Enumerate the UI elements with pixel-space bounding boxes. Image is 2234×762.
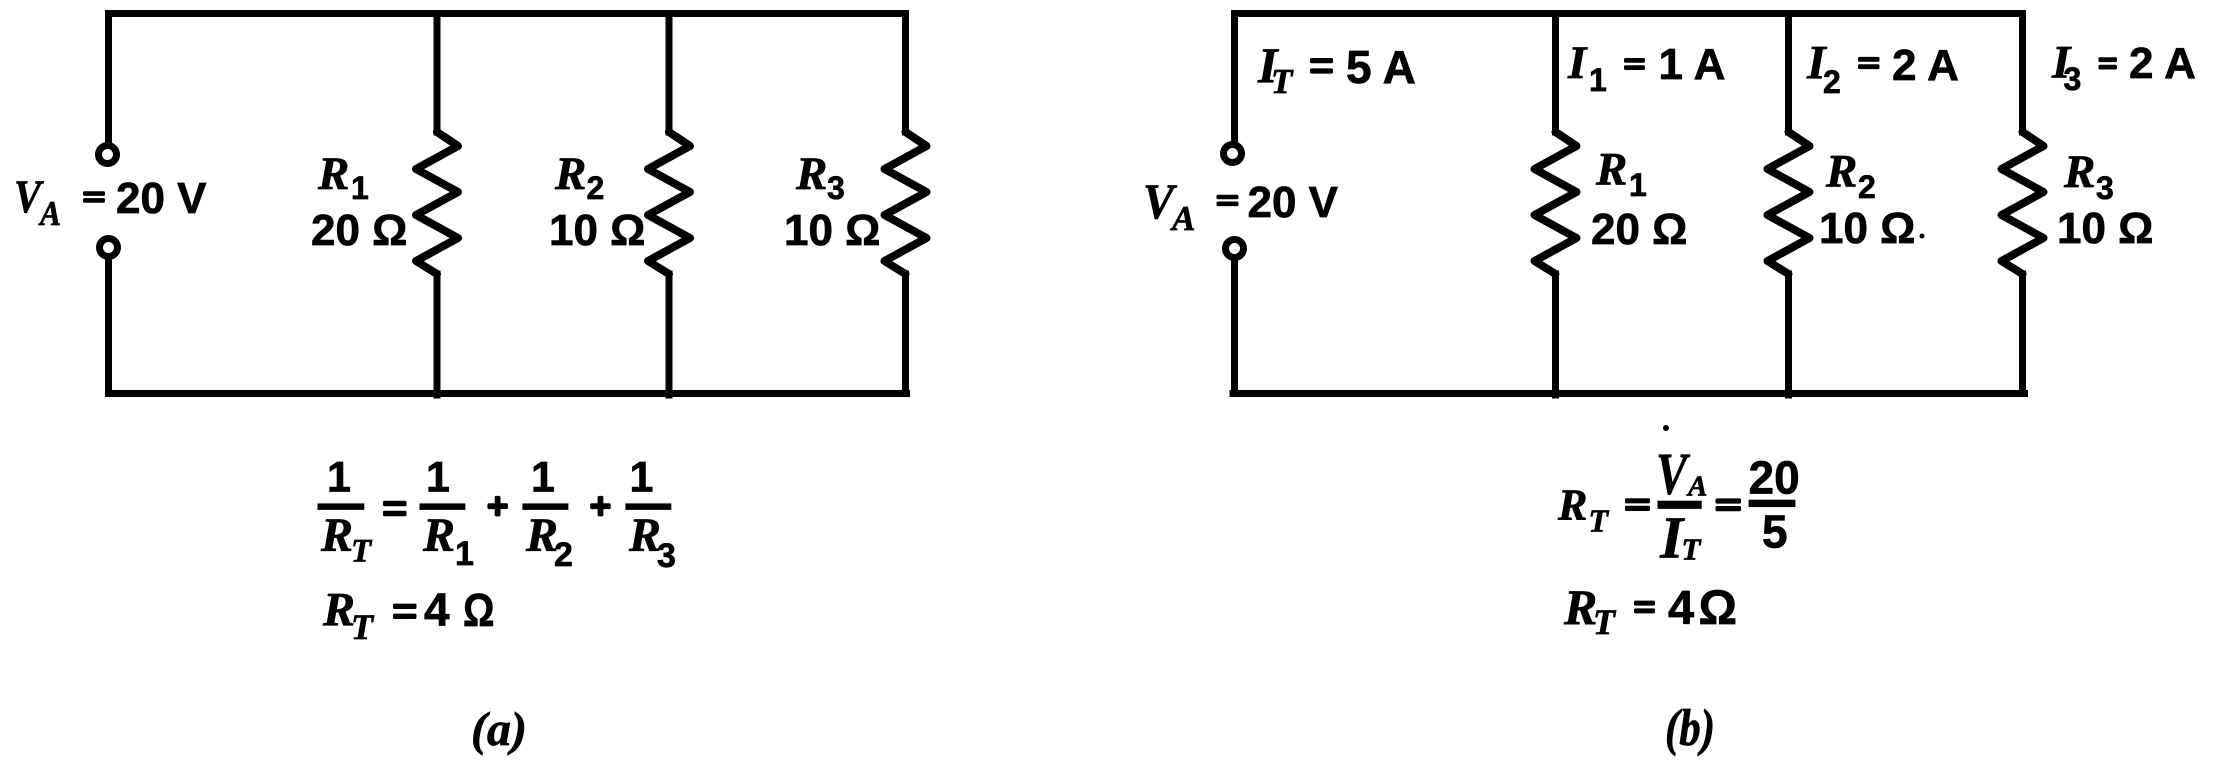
svg-text:Ω: Ω [463, 584, 495, 636]
resistor R2 (b) zigzag [1768, 132, 1810, 274]
svg-text:10 Ω: 10 Ω [1819, 204, 1915, 253]
fraction bar 1/R2 [522, 503, 568, 510]
svg-text:(b): (b) [1665, 700, 1715, 757]
svg-text:R: R [422, 509, 455, 562]
wire: R3 branch top lead (a, right side) [902, 14, 909, 133]
svg-text:10 Ω: 10 Ω [2057, 204, 2153, 253]
wire: R3 branch bottom lead (b, right side) [2019, 274, 2026, 394]
equals I3 (b) [2099, 57, 2118, 69]
svg-text:A: A [1170, 199, 1195, 238]
equals (formula a) [383, 501, 407, 516]
resistor R2 (a) zigzag [648, 132, 690, 274]
svg-text:2: 2 [587, 170, 605, 206]
svg-text:V: V [1656, 440, 1691, 506]
svg-text:20 V: 20 V [116, 174, 207, 223]
scan dot artifact above formula b [1663, 425, 1669, 431]
wire: R1 branch bottom lead (b) [1552, 274, 1559, 395]
resistor R1 (a) zigzag [416, 132, 458, 274]
svg-text:R: R [317, 148, 349, 200]
svg-text:1: 1 [1589, 62, 1607, 98]
terminal: circuit a bottom (open circle) [100, 239, 118, 257]
fraction bar 20/5 [1749, 500, 1796, 507]
svg-text:T: T [1271, 62, 1294, 101]
svg-text:2: 2 [1823, 64, 1841, 100]
svg-text:R: R [554, 148, 586, 200]
equals 2 (formula b) [1716, 498, 1742, 511]
wire: circuit a top rail [109, 10, 906, 17]
wire: R2 branch bottom lead (a) [666, 274, 673, 395]
resistor R3 (b) zigzag [2002, 132, 2044, 274]
svg-text:3: 3 [657, 537, 676, 575]
svg-text:20 Ω: 20 Ω [1591, 205, 1687, 254]
fraction bar 1/R1 [420, 503, 466, 510]
svg-text:1: 1 [455, 535, 474, 573]
resistor R3 (a) zigzag [885, 132, 927, 274]
wire: R1 branch top lead (a) [434, 14, 441, 133]
equals VA (b) [1217, 195, 1239, 206]
svg-text:T: T [1682, 532, 1702, 567]
svg-text:5: 5 [1762, 506, 1788, 558]
svg-text:20: 20 [1749, 451, 1800, 503]
fraction bar 1/RT [318, 503, 365, 510]
wire: R2 branch bottom lead (b) [1785, 274, 1792, 395]
wire: circuit b left from terminal to bottom rail [1231, 260, 1238, 394]
svg-text:4: 4 [424, 584, 450, 636]
formula (b): RT = VA/IT = 20/5 [1557, 425, 1800, 571]
svg-text:I: I [1567, 37, 1588, 89]
svg-text:1: 1 [327, 454, 351, 502]
fraction bar 1/R3 [625, 503, 671, 510]
svg-text:2: 2 [1858, 169, 1876, 205]
svg-text:20 V: 20 V [1248, 178, 1339, 227]
wire: circuit b top rail [1235, 10, 2023, 17]
scan dot artifact right of 10 ohm (b R2) [1920, 234, 1925, 239]
wire: circuit a left from terminal to bottom rail [105, 259, 112, 394]
svg-text:1: 1 [1629, 167, 1647, 203]
terminal: circuit a top (open circle) [99, 146, 117, 164]
svg-text:T: T [351, 534, 373, 570]
svg-text:1 A: 1 A [1659, 40, 1726, 89]
wire: circuit a left drop to terminal [105, 14, 112, 144]
equals (formula a line2) [393, 604, 417, 619]
equals (formula b line2) [1634, 601, 1655, 614]
svg-text:R: R [1595, 144, 1627, 196]
terminal: circuit b top (open circle) [1224, 145, 1242, 163]
plus 2 (formula a) [590, 496, 611, 517]
svg-text:3: 3 [2096, 170, 2114, 206]
svg-text:A: A [1686, 471, 1707, 503]
equals VA (a) [83, 191, 105, 202]
svg-text:1: 1 [351, 170, 369, 206]
wire: circuit a bottom rail [109, 390, 907, 397]
svg-text:R: R [795, 148, 827, 200]
terminal: circuit b bottom (open circle) [1226, 240, 1244, 258]
wire: circuit b bottom rail [1233, 390, 2025, 397]
svg-text:3: 3 [827, 170, 845, 206]
svg-text:R: R [1557, 481, 1587, 530]
svg-text:1: 1 [426, 454, 450, 502]
svg-text:10 Ω: 10 Ω [549, 206, 645, 255]
svg-text:T: T [351, 607, 375, 647]
svg-text:3: 3 [2064, 61, 2082, 97]
equals 1 (formula b) [1625, 498, 1650, 511]
wire: R2 branch top lead (b) [1785, 14, 1792, 133]
svg-text:20 Ω: 20 Ω [311, 206, 407, 255]
wire: R3 branch top lead (b, right side) [2019, 14, 2026, 133]
equals IT (b) [1310, 58, 1333, 74]
formula (a): 1/RT = 1/R1 + 1/R2 + 1/R3 [318, 454, 676, 576]
plus 1 (formula a) [487, 496, 508, 517]
wire: R1 branch top lead (b) [1552, 14, 1559, 133]
formula (b): RT = 4 ohm [1563, 579, 1737, 642]
wire: R3 branch bottom lead (a, right side) [902, 274, 909, 394]
svg-text:Ω: Ω [1699, 582, 1737, 635]
equals I2 (b) [1858, 57, 1880, 69]
svg-text:1: 1 [531, 454, 555, 502]
svg-text:T: T [1593, 602, 1617, 642]
svg-text:R: R [320, 509, 353, 562]
svg-text:R: R [2063, 146, 2095, 198]
svg-text:2 A: 2 A [1892, 41, 1959, 90]
svg-text:(a): (a) [471, 703, 527, 756]
svg-text:1: 1 [630, 454, 654, 502]
svg-text:4: 4 [1668, 581, 1694, 634]
svg-text:2 A: 2 A [2129, 39, 2196, 88]
wire: R1 branch bottom lead (a) [434, 274, 441, 395]
wire: R2 branch top lead (a) [666, 14, 673, 133]
equals I1 (b) [1624, 58, 1645, 70]
svg-text:T: T [1589, 503, 1610, 539]
svg-text:A: A [38, 194, 61, 233]
formula (a): RT = 4 ohm [322, 584, 495, 647]
fraction bar VA/IT [1658, 501, 1702, 509]
svg-text:5 A: 5 A [1346, 41, 1416, 93]
wire: circuit b left drop to terminal [1231, 14, 1238, 143]
resistor R1 (b) zigzag [1535, 132, 1577, 274]
svg-text:10 Ω: 10 Ω [784, 206, 880, 255]
svg-text:2: 2 [554, 536, 573, 574]
svg-text:R: R [1825, 146, 1857, 198]
